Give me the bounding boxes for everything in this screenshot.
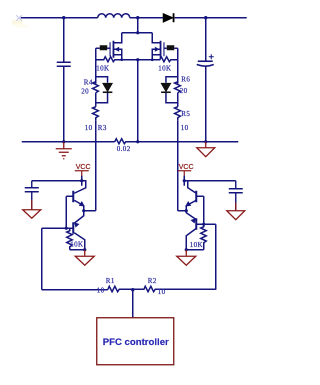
mosfet Q1 (left) bbox=[110, 33, 122, 60]
wire: right input from controller bbox=[215, 224, 217, 290]
wire: pulldown to emitter/ground bbox=[186, 249, 204, 251]
wire: base lead T2 + input corner bbox=[42, 227, 74, 229]
wire: input cap bottom bbox=[63, 67, 65, 142]
capacitor C1 (input) bbox=[57, 62, 71, 66]
wire: vcc rail to right bypass cap bbox=[184, 180, 236, 182]
wire: vcc rail to bypass cap bbox=[32, 180, 82, 182]
svg-text:R4: R4 bbox=[84, 78, 93, 86]
wire: drain bus bbox=[122, 32, 153, 34]
wire: output cap top bbox=[205, 18, 207, 61]
transistor Q3 (left NPN) bbox=[66, 181, 86, 211]
wire: output to right gate chain bbox=[178, 210, 187, 212]
wire: source bus with gate pulldown resistors bbox=[95, 48, 97, 60]
gate chain right: R6 parallel diode, R5 bbox=[177, 60, 179, 84]
resistor R4 20 bbox=[93, 82, 99, 93]
ground (left bypass cap) bbox=[23, 200, 41, 219]
power VCC right bbox=[178, 171, 192, 177]
resistor R5 10 bbox=[175, 107, 181, 121]
svg-text:0.02: 0.02 bbox=[117, 145, 131, 153]
ground (left driver) bbox=[75, 250, 94, 266]
ferrite bead left (gate) bbox=[96, 45, 110, 50]
faint X marker top-left bbox=[16, 15, 22, 21]
wire: top input line left bbox=[21, 17, 98, 19]
ground (output, triangle) bbox=[197, 142, 215, 157]
resistor R2 10 bbox=[144, 286, 216, 292]
svg-text:VCC: VCC bbox=[76, 164, 91, 171]
svg-text:10K: 10K bbox=[190, 241, 203, 249]
power VCC left bbox=[75, 171, 89, 177]
svg-text:PFC controller: PFC controller bbox=[103, 337, 169, 348]
svg-text:10K: 10K bbox=[96, 64, 109, 72]
node: center drain junction bbox=[136, 16, 139, 19]
mosfet Q2 (right) bbox=[152, 33, 164, 60]
PFC controller U1 bbox=[97, 318, 174, 365]
svg-text:VCC: VCC bbox=[179, 164, 194, 171]
ferrite bead right (gate) bbox=[164, 45, 178, 50]
node: controller drive bbox=[131, 288, 134, 291]
wire: gate chain down to driver output bbox=[95, 121, 97, 211]
wire: base rail left bbox=[65, 196, 67, 228]
svg-text:10: 10 bbox=[181, 124, 189, 132]
wire: pulldown to emitter/ground bbox=[70, 249, 85, 251]
inductor L1 bbox=[98, 14, 130, 18]
node: drain bus junction bbox=[136, 31, 139, 34]
ground rail (shunt rail) bbox=[22, 141, 115, 143]
svg-text:R2: R2 bbox=[148, 277, 157, 285]
wire: input cap top bbox=[63, 18, 65, 62]
wire: source bus center bbox=[122, 59, 153, 61]
wire: diode to output bbox=[175, 17, 247, 19]
svg-text:R5: R5 bbox=[181, 110, 190, 118]
wire: center source down to shunt rail bbox=[137, 60, 139, 142]
svg-text:10: 10 bbox=[85, 124, 93, 132]
wire: driver output to gate chain bbox=[84, 210, 96, 212]
svg-text:R3: R3 bbox=[98, 124, 107, 132]
node: output cap top bbox=[204, 16, 207, 19]
wire: bus left bbox=[42, 289, 108, 291]
svg-text:10K: 10K bbox=[70, 240, 83, 248]
resistor 10K (left gate pulldown) bbox=[96, 57, 122, 62]
wire: to controller bbox=[132, 290, 134, 318]
svg-text:20: 20 bbox=[180, 87, 188, 95]
wire: right gate chain down to driver output bbox=[177, 121, 179, 211]
wire: left input from controller bbox=[41, 228, 43, 290]
ground (earth, under rail) bbox=[56, 142, 72, 159]
resistor R3 10 bbox=[93, 107, 99, 121]
svg-text:10K: 10K bbox=[158, 64, 171, 72]
resistor R6 20 bbox=[175, 82, 181, 93]
ground (right bypass cap) bbox=[227, 203, 245, 220]
svg-text:R6: R6 bbox=[181, 75, 190, 83]
capacitor C4 (right bypass) bbox=[229, 181, 243, 211]
capacitor C3 (left bypass) bbox=[25, 181, 39, 210]
wire: center down to drain bus bbox=[137, 18, 139, 33]
resistor shunt 0.02 bbox=[115, 139, 239, 144]
wire: base rail right bbox=[203, 196, 205, 224]
faint yellow smudge bbox=[12, 20, 28, 28]
svg-text:10: 10 bbox=[97, 286, 105, 294]
node: input cap junction bbox=[62, 16, 65, 19]
svg-text:R1: R1 bbox=[106, 277, 115, 285]
gate chain left: R4 parallel diode, R3 bbox=[95, 60, 97, 84]
transistor Q6 (right PNP) bbox=[186, 211, 196, 250]
diode D3 (right speedup) bbox=[161, 77, 178, 103]
svg-text:20: 20 bbox=[81, 87, 89, 95]
wire: output cap bottom bbox=[205, 66, 207, 142]
svg-text:10: 10 bbox=[158, 288, 166, 296]
resistor 10K (right driver pulldown) bbox=[201, 224, 207, 250]
transistor Q5 (right NPN) bbox=[184, 181, 204, 211]
resistor R1 10 bbox=[108, 286, 144, 292]
node: right driver output bbox=[185, 209, 188, 212]
wire: inductor to diode bbox=[130, 17, 164, 19]
resistor 10K (left driver pulldown) bbox=[67, 228, 73, 250]
node: left driver output bbox=[82, 209, 85, 212]
wire: base lead T2 + input corner bbox=[196, 223, 216, 225]
transistor Q4 (left PNP) bbox=[73, 211, 85, 250]
capacitor C2 (output, polarized) bbox=[197, 54, 214, 66]
ground (right driver) bbox=[177, 250, 196, 266]
resistor 10K (right gate pulldown) bbox=[152, 57, 178, 62]
diode D1 bbox=[163, 13, 173, 22]
diode D2 (left speedup) bbox=[96, 77, 113, 103]
